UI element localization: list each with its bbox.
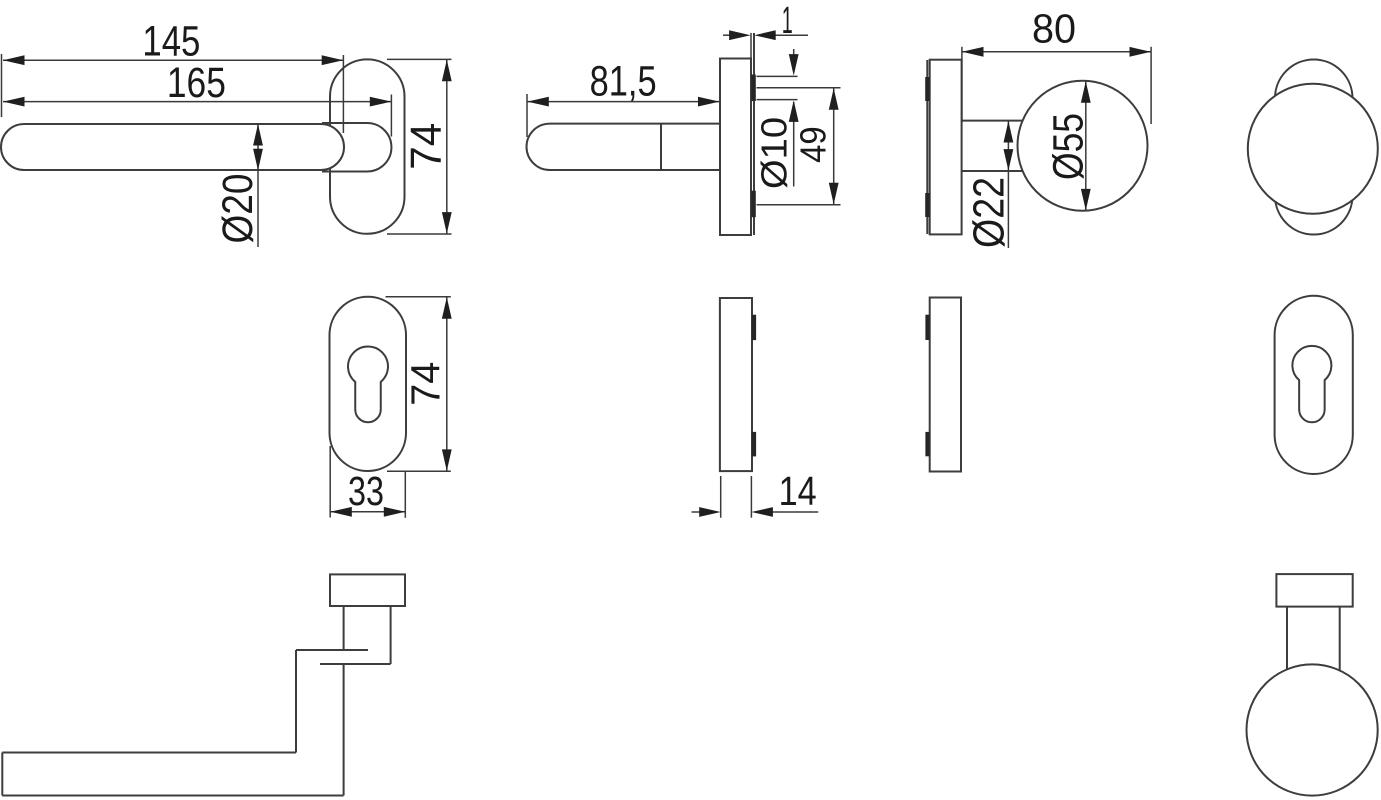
top fixing clip (fig2): [751, 75, 756, 102]
key rosette side view rectangle (fig7): [930, 298, 961, 472]
svg-text:33: 33: [348, 468, 384, 514]
dimension 49 line with arrows: [833, 88, 835, 205]
neck rear edge (fig8): [343, 664, 345, 796]
bottom reference line 74 (fig5): [387, 470, 451, 472]
neck front edge (fig8): [295, 650, 297, 753]
svg-text:Ø20: Ø20: [214, 174, 262, 244]
svg-text:Ø22: Ø22: [965, 177, 1014, 248]
svg-text:14: 14: [779, 468, 817, 514]
neck joint line on lever bar: [660, 124, 662, 170]
Ø10 upper pointer arrow: [793, 49, 795, 60]
dimension 80 line with arrows: [962, 51, 1151, 53]
grip top edge (fig8): [2, 752, 296, 754]
extension line 14 right: [750, 476, 752, 518]
oval key rosette front view: [330, 297, 407, 471]
top fixing clip (fig3): [925, 77, 930, 101]
neck right edge (fig8): [390, 606, 392, 664]
mounting plate line (fig2): [753, 33, 755, 235]
knob neck left edge (fig10): [1286, 607, 1288, 671]
tick line clip bottom: [757, 99, 798, 101]
dimension 165 line with arrows: [3, 101, 391, 103]
rosette side view rectangle (fig3): [930, 60, 962, 235]
left extension line (handle tip): [1, 54, 3, 117]
dimension 81,5 line with arrows: [527, 101, 719, 103]
knob sphere (fig10): [1247, 664, 1378, 795]
svg-text:1: 1: [782, 0, 793, 42]
tick line clip centre (49 top ref): [757, 87, 841, 89]
dimension 74 vertical line with arrows (fig1): [446, 60, 448, 234]
bottom fixing clip (fig2): [751, 191, 756, 218]
crank lower horizontal edge (fig8): [320, 663, 391, 665]
extension line at 145: [342, 55, 344, 133]
knob neck right edge (fig10): [1339, 607, 1341, 673]
dimension 74 line with arrows (fig5): [446, 297, 448, 471]
bottom reference line 74 (fig1): [387, 233, 452, 235]
svg-text:165: 165: [167, 59, 226, 107]
crank upper horizontal edge (fig8): [296, 649, 368, 651]
oval rosette behind knob (front view): [1275, 60, 1353, 235]
grip left end (fig8): [1, 753, 3, 796]
svg-text:80: 80: [1032, 6, 1076, 52]
knob sphere circle: [1018, 81, 1148, 211]
dimension 14 left arrow: [692, 511, 701, 513]
dimension 145 line with arrows: [3, 59, 343, 61]
oval rosette of lever handle front view: [330, 59, 405, 233]
extension line 14 left: [720, 476, 722, 518]
svg-text:74: 74: [402, 123, 451, 170]
dimension Ø22 line with arrows: [1007, 121, 1009, 248]
extension of rosette face for 1 mm dim: [750, 33, 752, 59]
euro profile cylinder keyhole (fig9): [1292, 346, 1331, 422]
bottom fixing clip (fig6): [752, 432, 756, 457]
top fixing clip (fig6): [752, 315, 756, 340]
dimension 1 left arrow: [723, 34, 733, 36]
svg-text:74: 74: [402, 362, 448, 406]
mounting plate line (fig3): [926, 60, 928, 234]
knob neck top line: [962, 120, 1023, 122]
extension line 80 right: [1150, 47, 1152, 124]
extension line at 165: [390, 95, 392, 137]
dimension 1 right arrow: [775, 34, 808, 36]
top reference line 74 (fig5): [386, 296, 451, 298]
knob sphere front view: [1248, 84, 1378, 214]
rosette cap rectangle (fig10): [1276, 574, 1352, 607]
handle neck piece (rear stadium, 165 mm end): [322, 123, 391, 172]
top reference line 74 (fig1): [387, 58, 452, 60]
svg-text:49: 49: [793, 126, 834, 163]
lever grip bar (front stadium, 145 mm): [1, 124, 344, 170]
knob neck bottom line: [962, 170, 1023, 172]
grip bottom edge (fig8): [2, 795, 343, 797]
svg-text:81,5: 81,5: [590, 58, 657, 106]
svg-text:Ø55: Ø55: [1045, 113, 1093, 180]
extension line 33 left: [329, 446, 331, 518]
lever bar side view: [527, 124, 721, 170]
euro profile cylinder keyhole (fig5): [348, 346, 388, 422]
rosette cap rectangle (fig8): [330, 574, 405, 606]
dimension 33 line with arrows: [330, 511, 405, 513]
bottom fixing clip (fig3): [925, 193, 930, 217]
tick line lower clip centre (49 bottom ref): [757, 204, 841, 206]
dimension Ø55 line with arrows: [1085, 81, 1087, 210]
top fixing clip (fig7): [925, 315, 929, 340]
Ø10 lower pointer arrow: [793, 102, 795, 187]
tick line clip top: [757, 75, 798, 77]
rosette side view rectangle (fig2): [720, 59, 751, 236]
extension line at bar tip (fig2): [526, 94, 528, 137]
extension line 80 left: [961, 47, 963, 123]
key rosette side view rectangle (fig6): [720, 298, 752, 471]
extension line 33 right: [404, 472, 406, 518]
bottom fixing clip (fig7): [925, 432, 929, 456]
svg-text:Ø10: Ø10: [754, 117, 795, 189]
dimension 14 right arrow: [772, 511, 818, 513]
dimension Ø20 line with arrows: [257, 124, 259, 247]
oval key rosette front view (right): [1275, 296, 1353, 474]
neck left edge upper (fig8): [343, 606, 345, 650]
